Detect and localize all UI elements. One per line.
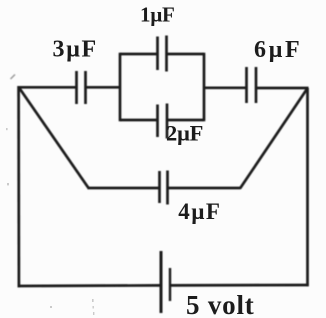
capacitor 3µF: [77, 71, 86, 104]
svg-text:4µF: 4µF: [178, 199, 221, 224]
wire right side vertical: [306, 88, 309, 286]
svg-text:2µF: 2µF: [166, 121, 203, 146]
svg-text:1µF: 1µF: [140, 2, 175, 26]
svg-text:6µF: 6µF: [254, 37, 302, 63]
capacitor 6µF: [247, 67, 257, 103]
wire C(6µF) to top-right node: [256, 87, 309, 90]
wire parallel box right edge: [203, 53, 206, 122]
wire box top edge left segment: [120, 53, 158, 56]
wire box top edge right segment: [167, 53, 205, 56]
wire parallel box to C(6µF): [204, 86, 247, 89]
scan speckle dots: [6, 128, 94, 315]
svg-text:5 volt: 5 volt: [186, 290, 255, 318]
wire box bottom edge left segment: [120, 119, 158, 122]
wire left diagonal to 4µF branch: [19, 87, 89, 188]
svg-text:3µF: 3µF: [53, 37, 98, 63]
wire right diagonal to top-right node: [240, 88, 308, 189]
wire top-left node to C(3µF): [18, 86, 77, 89]
wire left side vertical: [17, 86, 20, 287]
wire parallel box left edge: [119, 53, 122, 122]
wire 4µF branch right horizontal: [168, 187, 241, 190]
wire bottom left to battery: [18, 284, 161, 287]
battery 5 volt: [161, 251, 170, 313]
wire 4µF branch left horizontal: [88, 187, 160, 190]
capacitor 4µF: [160, 171, 168, 205]
wire battery to bottom right: [170, 284, 309, 287]
wire box bottom edge right segment: [167, 119, 204, 122]
wire C(3µF) to parallel box left: [86, 86, 122, 89]
scan artifact dash near left edge: [11, 75, 16, 80]
capacitor 2µF: [158, 104, 168, 139]
capacitor 1µF: [158, 36, 167, 72]
